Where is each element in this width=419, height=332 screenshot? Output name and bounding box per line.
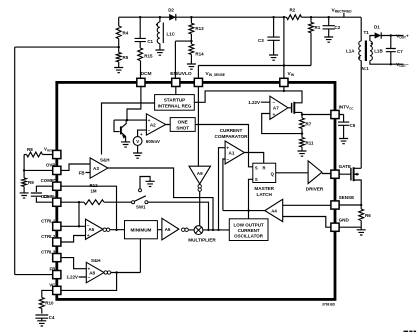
svg-text:MINIMUM: MINIMUM (131, 228, 152, 233)
svg-text:1.22V: 1.22V (67, 275, 79, 280)
svg-text:R13: R13 (195, 26, 204, 31)
svg-text:1.22V: 1.22V (248, 100, 260, 105)
svg-text:SHOT: SHOT (176, 126, 189, 131)
svg-text:N:1: N:1 (362, 66, 370, 71)
svg-text:+: + (226, 146, 229, 151)
svg-text:FB: FB (49, 267, 55, 272)
svg-text:+: + (140, 132, 143, 137)
svg-text:R6: R6 (365, 213, 371, 218)
svg-text:A2: A2 (150, 122, 156, 127)
svg-text:R: R (262, 165, 265, 170)
svg-text:C4: C4 (49, 315, 55, 320)
svg-text:COMPARATOR: COMPARATOR (215, 134, 249, 139)
svg-text:R9: R9 (28, 180, 34, 185)
svg-text:A1: A1 (229, 150, 235, 155)
svg-text:–: – (87, 224, 90, 229)
svg-text:ONE: ONE (178, 120, 188, 125)
svg-text:R11: R11 (306, 141, 315, 146)
svg-text:R2: R2 (290, 8, 296, 13)
svg-text:V: V (136, 139, 139, 144)
svg-text:R5: R5 (123, 55, 129, 60)
svg-text:S: S (255, 165, 258, 170)
svg-text:–: – (273, 101, 276, 106)
svg-text:VC: VC (49, 282, 56, 287)
svg-text:+: + (148, 119, 151, 124)
svg-text:S&H: S&H (91, 258, 101, 263)
svg-text:+: + (87, 267, 90, 272)
svg-text:L1B: L1B (374, 49, 383, 54)
svg-text:GATE: GATE (339, 164, 351, 169)
svg-text:INTERNAL REG: INTERNAL REG (158, 104, 192, 109)
svg-text:MULTIPLIER: MULTIPLIER (188, 238, 216, 243)
svg-text:COMP+: COMP+ (41, 178, 56, 183)
svg-text:S: S (255, 177, 258, 182)
svg-text:A6: A6 (165, 227, 171, 232)
svg-text:DRIVER: DRIVER (306, 186, 324, 191)
svg-text:STARTUP: STARTUP (164, 97, 186, 102)
svg-text:A3: A3 (93, 166, 99, 171)
svg-text:R8: R8 (27, 147, 33, 152)
svg-text:R15: R15 (144, 54, 153, 59)
svg-text:OVP: OVP (46, 162, 55, 167)
svg-text:CTRL2: CTRL2 (41, 234, 56, 239)
svg-text:SENSE: SENSE (339, 195, 355, 200)
svg-text:+: + (273, 113, 276, 118)
svg-text:GND: GND (339, 217, 350, 222)
svg-text:L1C: L1C (167, 32, 176, 37)
svg-text:R1: R1 (315, 25, 321, 30)
svg-text:C7: C7 (397, 49, 403, 54)
svg-text:S&H: S&H (100, 158, 110, 163)
svg-text:A4: A4 (271, 209, 277, 214)
svg-text:R10: R10 (45, 301, 54, 306)
svg-text:COMP–: COMP– (41, 194, 56, 199)
svg-text:–: – (148, 129, 151, 134)
svg-text:A7: A7 (273, 106, 279, 111)
svg-text:C2: C2 (335, 25, 341, 30)
svg-text:LATCH: LATCH (257, 192, 273, 197)
svg-text:C5: C5 (350, 123, 356, 128)
svg-text:1M: 1M (90, 189, 96, 194)
svg-text:D1: D1 (374, 25, 380, 30)
svg-text:L1A: L1A (346, 49, 355, 54)
svg-text:CTRL3: CTRL3 (41, 250, 56, 255)
svg-text:LOW OUTPUT: LOW OUTPUT (233, 222, 263, 227)
svg-text:DCM: DCM (141, 71, 152, 77)
svg-text:FB: FB (79, 170, 85, 175)
svg-text:R7: R7 (306, 122, 312, 127)
svg-text:A9: A9 (197, 171, 203, 176)
svg-text:C1: C1 (147, 39, 153, 44)
svg-text:R4: R4 (123, 31, 129, 36)
svg-text:3798 BD: 3798 BD (322, 302, 336, 306)
svg-text:D2: D2 (168, 8, 174, 13)
svg-text:C3: C3 (258, 38, 264, 43)
svg-text:OSCILLATOR: OSCILLATOR (234, 234, 264, 239)
svg-text:SW1: SW1 (136, 205, 146, 210)
svg-text:–: – (88, 276, 91, 281)
svg-text:CURRENT: CURRENT (238, 228, 260, 233)
svg-text:T1: T1 (364, 30, 370, 35)
svg-text:EN/UVLO: EN/UVLO (170, 71, 192, 77)
svg-text:R12: R12 (89, 183, 98, 188)
svg-text:CURRENT: CURRENT (220, 128, 243, 133)
svg-text:–: – (226, 158, 229, 163)
svg-text:+: + (87, 234, 90, 239)
svg-text:600mV: 600mV (146, 139, 160, 144)
svg-text:MASTER: MASTER (254, 186, 274, 191)
svg-text:R14: R14 (195, 52, 204, 57)
svg-text:CTRL1: CTRL1 (41, 218, 56, 223)
